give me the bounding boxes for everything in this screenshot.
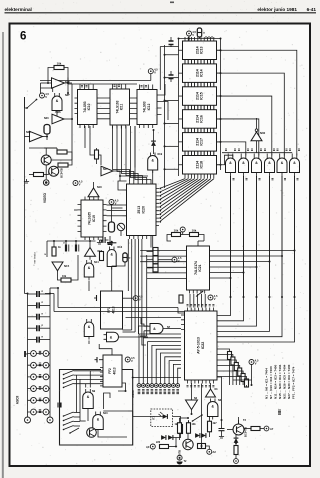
svg-text:10k: 10k bbox=[192, 228, 197, 232]
resistor R22 bbox=[172, 233, 181, 237]
pullup bottom lead 1 bbox=[232, 365, 234, 385]
video stage wiring bbox=[45, 165, 47, 179]
svg-text:10k: 10k bbox=[57, 61, 62, 65]
svg-text:V: V bbox=[131, 359, 133, 363]
IC13 bottom pin comb bbox=[185, 60, 214, 64]
resistor R9 bbox=[95, 150, 99, 159]
svg-text:IC15: IC15 bbox=[200, 92, 204, 100]
IC15 top pin comb bbox=[185, 83, 214, 87]
RAM data line D3 bbox=[217, 96, 272, 155]
left vertical rail bbox=[24, 97, 26, 294]
resistor R23 bbox=[190, 233, 199, 237]
svg-text:IC18: IC18 bbox=[200, 161, 204, 169]
count wire to N19 bbox=[134, 126, 136, 168]
IC14 top pin comb bbox=[185, 60, 214, 64]
junction dot bbox=[269, 296, 271, 298]
nand N7 bbox=[150, 324, 163, 334]
D7-R32 wires bbox=[235, 443, 237, 446]
RAM data line D1 bbox=[217, 142, 246, 156]
IC21 top pin bbox=[197, 241, 199, 246]
kbd capacitor row 3 bbox=[28, 327, 37, 329]
gate N24 bbox=[265, 158, 275, 172]
R32 wiring bbox=[235, 439, 237, 441]
cap C16 bbox=[219, 429, 225, 431]
polarized cap C7 bbox=[75, 245, 77, 252]
diodes D5 D6 bbox=[195, 433, 200, 438]
gate N21 bbox=[226, 158, 236, 172]
opto LED bbox=[163, 414, 168, 419]
svg-text:V: V bbox=[45, 95, 47, 99]
osc-to-counter wire A bbox=[67, 78, 69, 96]
svg-text:220: 220 bbox=[156, 441, 161, 444]
kbd cap to rail bbox=[57, 403, 59, 408]
UART top feed wires bbox=[189, 294, 191, 308]
kbd capacitor row 2 bbox=[28, 316, 37, 318]
IC21 bottom pins bbox=[190, 290, 205, 294]
svg-text:A7: A7 bbox=[270, 427, 274, 431]
UART bottom pin numbers bbox=[187, 386, 189, 387]
IC18 right pin bbox=[217, 164, 221, 166]
kbd line connector 9 bbox=[176, 384, 180, 388]
bottom mid wiring bbox=[191, 410, 193, 414]
mid wire crossing bbox=[120, 175, 148, 177]
N26 out wire bbox=[64, 118, 72, 120]
transistor T5 bbox=[233, 424, 244, 435]
IC14 CS stub bbox=[165, 77, 179, 79]
gate N24 output drop bbox=[269, 176, 271, 297]
left rail to keyboard wire bbox=[25, 293, 28, 295]
pullup resistor bottom 2 bbox=[234, 363, 238, 371]
inverter N18 bbox=[88, 188, 99, 197]
svg-text:N1 ... N6 = IC1 = 7404: N1 ... N6 = IC1 = 7404 bbox=[265, 368, 269, 399]
page top mark bbox=[170, 2, 174, 4]
svg-text:IC14: IC14 bbox=[200, 69, 204, 77]
IC14 right pin bbox=[217, 72, 221, 74]
IC17 top pin comb bbox=[185, 129, 214, 133]
FF2 left pins bbox=[100, 368, 103, 386]
N17 wiring bbox=[113, 171, 120, 181]
addr fan line A6 bbox=[160, 179, 195, 200]
socket A8 bbox=[234, 459, 239, 464]
gate N22 to UART wire bbox=[219, 176, 244, 321]
svg-text:V: V bbox=[255, 361, 257, 365]
kbd box inner wires bbox=[76, 375, 78, 412]
IC12 bottom pins bbox=[140, 125, 153, 129]
svg-text:N28: N28 bbox=[65, 81, 70, 84]
IC14 left pin bbox=[179, 72, 183, 74]
kbd pin pair 4 bbox=[28, 399, 51, 401]
gate N25 to UART wire bbox=[219, 176, 283, 337]
svg-text:V: V bbox=[139, 298, 141, 302]
gate N23 output drop bbox=[256, 176, 258, 297]
svg-text:VIDEO: VIDEO bbox=[43, 193, 47, 203]
IC19 left pins bbox=[78, 205, 82, 232]
UART kbd wire 0 bbox=[139, 334, 181, 384]
IC11 bottom pins bbox=[113, 125, 126, 129]
nand N9 bbox=[83, 392, 94, 408]
R28 bottom wire bbox=[179, 433, 181, 440]
addr fan line A7 bbox=[160, 179, 192, 196]
socket A7 bbox=[264, 426, 269, 431]
kbd gate wiring bbox=[87, 412, 89, 422]
svg-text:N26: N26 bbox=[55, 110, 61, 114]
latch IC21 74LS174 bbox=[187, 246, 210, 290]
RAM decoupling cap A bbox=[169, 41, 174, 45]
video output socket bbox=[43, 180, 49, 186]
uart strobe to keyboard wire bbox=[133, 377, 181, 379]
svg-text:10k: 10k bbox=[174, 228, 179, 232]
FF1 left cap bbox=[96, 295, 98, 301]
opto right wiring bbox=[169, 446, 177, 448]
video data turn 4b bbox=[140, 335, 147, 337]
gate input bus bbox=[222, 152, 292, 154]
gate N26 to UART wire bbox=[219, 176, 295, 342]
IC19 right pins bbox=[103, 205, 107, 232]
count-to-chargen wire 1 bbox=[117, 126, 134, 181]
resistor R27 bbox=[160, 445, 169, 449]
mono out bbox=[111, 266, 113, 291]
UART out wire 5 bbox=[217, 377, 247, 379]
IC13 top pin comb bbox=[185, 37, 214, 41]
gate N24 to UART wire bbox=[219, 176, 270, 331]
IC19-IC20 wire 3 bbox=[107, 215, 123, 217]
mono cap C13 bbox=[123, 253, 127, 262]
matrix wire 4 bbox=[210, 272, 244, 274]
kbd pin pair 1 bbox=[28, 364, 51, 366]
junction dot bbox=[281, 296, 283, 298]
UART out wire 2 bbox=[217, 360, 236, 362]
svg-text:IC11: IC11 bbox=[120, 103, 124, 110]
mono top cap bbox=[107, 242, 116, 244]
svg-text:u: u bbox=[129, 256, 131, 260]
svg-text:V: V bbox=[79, 182, 81, 186]
kbd line label 2 bbox=[146, 390, 149, 394]
IC13 left pin bbox=[179, 49, 183, 51]
count-to-chargen wire 4 bbox=[131, 126, 147, 181]
RAM data line D4 bbox=[217, 73, 285, 155]
IC12 right pins bbox=[157, 95, 162, 115]
video data wire ff1 bbox=[127, 239, 129, 291]
UART left top wires bbox=[126, 317, 182, 319]
kbd rail left bbox=[27, 294, 29, 421]
N19 output bbox=[152, 170, 154, 252]
IC18 left pin bbox=[179, 164, 183, 166]
junction dot bbox=[230, 296, 232, 298]
N7 wiring bbox=[166, 328, 181, 330]
svg-text:6: 6 bbox=[20, 31, 26, 43]
kbd line connector 2 bbox=[146, 384, 150, 388]
IC18 top pin comb bbox=[185, 152, 214, 156]
IC15 left pin bbox=[179, 95, 183, 97]
uart pullup supply bbox=[249, 360, 254, 365]
IC13 right pin bbox=[217, 49, 221, 51]
UART out wire 1 bbox=[217, 355, 233, 357]
kbd line connector 0 bbox=[137, 384, 141, 388]
kbd line label 4 bbox=[155, 390, 158, 394]
RAM IC16 2114 bbox=[183, 110, 217, 129]
N25 wiring bbox=[43, 136, 48, 138]
inverter N17 bbox=[101, 166, 113, 176]
inverter N30 bbox=[251, 132, 262, 141]
matrix wire 2 bbox=[210, 261, 270, 263]
IC18 bottom pin comb bbox=[185, 174, 214, 178]
elcap C15 bbox=[198, 444, 206, 449]
count-to-chargen wire 3 bbox=[126, 126, 142, 181]
svg-text:N13: N13 bbox=[118, 246, 123, 249]
svg-text:IC19: IC19 bbox=[92, 215, 96, 222]
matrix wire 1 bbox=[210, 255, 283, 257]
kbd transistor T3 bbox=[87, 428, 97, 438]
xtal X1 bbox=[44, 125, 50, 135]
counter IC12 74LS93 bbox=[137, 90, 157, 125]
matrix wire 5 bbox=[210, 277, 231, 279]
pullup bottom lead 2 bbox=[235, 371, 237, 386]
RAM decoupling cap B bbox=[169, 75, 174, 79]
svg-text:V: V bbox=[178, 259, 180, 263]
UART left resistor bbox=[179, 295, 183, 303]
kbd pin pair 5 bbox=[28, 411, 51, 413]
IC14 bottom pin comb bbox=[185, 82, 214, 86]
svg-text:10k: 10k bbox=[192, 423, 197, 426]
svg-text:FF1 , FF2 = IC7 = 7474: FF1 , FF2 = IC7 = 7474 bbox=[292, 366, 296, 399]
svg-text:N16: N16 bbox=[98, 250, 103, 253]
IC15 right pin bbox=[217, 95, 221, 97]
resistor R31 bbox=[251, 427, 260, 431]
kbd switch S13 bbox=[70, 428, 79, 433]
xtal X2 bbox=[109, 222, 115, 232]
inverter N28 bbox=[52, 78, 65, 88]
counter supply node bbox=[148, 69, 153, 74]
R28 top wire bbox=[179, 418, 181, 423]
svg-text:N27: N27 bbox=[65, 94, 70, 97]
UART kbd wire 1 bbox=[143, 338, 181, 384]
matrix junction 2 bbox=[269, 261, 271, 263]
svg-text:N11 ... N14 = IC3 = 7400: N11 ... N14 = IC3 = 7400 bbox=[274, 364, 278, 399]
resistor R26 bbox=[179, 425, 183, 434]
gate N25 bbox=[277, 158, 287, 173]
gate N23 bbox=[252, 158, 262, 172]
char-gen IC20 2513 bbox=[127, 184, 157, 236]
socket A3 bbox=[150, 444, 155, 449]
kbd pin pair 0 bbox=[28, 353, 51, 355]
IC20 left pins bbox=[123, 189, 127, 191]
svg-text:IC17: IC17 bbox=[200, 138, 204, 146]
FF2 top wiring bbox=[99, 344, 112, 351]
svg-text:* ver texto: * ver texto bbox=[33, 252, 37, 266]
video gnd bbox=[24, 179, 29, 183]
matrix junction 1 bbox=[281, 255, 283, 257]
chargen left wiring bbox=[111, 205, 113, 223]
line-rate wire bbox=[84, 126, 86, 148]
RAM left feed wire bbox=[160, 46, 178, 48]
resistor R28 bbox=[178, 423, 182, 434]
nand N3 bbox=[207, 402, 218, 417]
IC15 CS stub bbox=[165, 100, 179, 102]
FF2 left cap bbox=[96, 357, 98, 363]
svg-text:IC16: IC16 bbox=[200, 115, 204, 123]
FF2 supply bbox=[125, 357, 130, 362]
kbd line connector 7 bbox=[167, 384, 171, 388]
svg-text:6-41: 6-41 bbox=[307, 7, 317, 12]
matrix wire 0 bbox=[210, 250, 295, 252]
gate N25 output drop bbox=[281, 176, 283, 297]
switch cluster S9-S12 bbox=[64, 412, 74, 430]
kbd capacitor row 4 bbox=[28, 339, 37, 341]
svg-text:elekterminal: elekterminal bbox=[5, 7, 32, 12]
uart pullup bus bbox=[233, 379, 252, 381]
svg-text:IC22: IC22 bbox=[201, 342, 205, 350]
video data wire 1 bbox=[134, 239, 136, 332]
svg-text:ASCII: ASCII bbox=[16, 396, 20, 405]
gate N26 bbox=[290, 158, 300, 172]
kbd line connector 1 bbox=[141, 384, 145, 388]
junction dot bbox=[243, 296, 245, 298]
xtal wiring bbox=[46, 134, 48, 140]
gnd C16 bbox=[219, 434, 224, 438]
sync wire left bbox=[29, 147, 57, 149]
video data turn bbox=[123, 329, 132, 331]
UART kbd wire 3 bbox=[152, 345, 181, 383]
addr fan line A8 bbox=[160, 179, 189, 193]
counter pin labels bbox=[81, 86, 83, 87]
kbd pin pair 2 bbox=[28, 376, 51, 378]
UART out wire 4 bbox=[217, 371, 243, 373]
supply node chargen bbox=[109, 200, 114, 205]
osc cap wiring bbox=[47, 240, 96, 242]
UART kbd wire 2 bbox=[148, 342, 181, 384]
N18 wiring bbox=[93, 182, 95, 188]
RAM IC14 2114 bbox=[183, 64, 217, 83]
N14 wiring bbox=[88, 281, 90, 292]
gate N26 output drop bbox=[294, 176, 296, 297]
trimmer C12 bbox=[117, 223, 124, 230]
pullup resistor bottom 0 bbox=[228, 352, 232, 360]
svg-text:IC13: IC13 bbox=[200, 46, 204, 54]
junction dots bbox=[164, 54, 166, 56]
polarized cap C6 bbox=[65, 245, 67, 252]
T5 collector wire bbox=[238, 417, 240, 424]
svg-text:IC12: IC12 bbox=[147, 103, 151, 110]
addr fan line A4 bbox=[160, 179, 202, 208]
kbd line label 5 bbox=[159, 390, 162, 394]
flip-flop FF2 IC24b bbox=[103, 355, 122, 387]
counter feed stubs bbox=[80, 85, 93, 90]
speaker socket bbox=[177, 455, 182, 460]
cap C11 bbox=[103, 237, 105, 243]
resistor R29 bbox=[187, 423, 191, 434]
kbd line connector 3 bbox=[150, 384, 154, 388]
inverter N15 bbox=[52, 262, 63, 271]
kbd-to-UART wire 2 bbox=[45, 293, 54, 295]
kbd line label 7 bbox=[168, 390, 171, 394]
IC17 bottom pin comb bbox=[185, 151, 214, 155]
svg-text:V: V bbox=[154, 71, 156, 75]
addr fan line A9 bbox=[160, 179, 186, 189]
svg-text:N27 ... N30 = IC6 = 7400: N27 ... N30 = IC6 = 7400 bbox=[287, 364, 291, 399]
pullup bottom lead 3 bbox=[239, 376, 241, 385]
res R15 bbox=[100, 252, 104, 261]
RAM left rail bbox=[178, 39, 180, 177]
svg-text:IC20: IC20 bbox=[141, 206, 145, 213]
gate N21 output drop bbox=[230, 176, 232, 297]
IC10 bottom pins bbox=[80, 125, 93, 129]
N2 input wire bbox=[191, 383, 193, 400]
gate N22 bbox=[239, 158, 249, 172]
video data wire 0 bbox=[131, 239, 133, 330]
svg-text:N25: N25 bbox=[26, 131, 31, 134]
kbd box out to opto wire bbox=[132, 411, 134, 417]
switch cluster S5-S8 bbox=[64, 371, 74, 388]
video data wire 5b bbox=[150, 239, 152, 248]
kbd capacitor row 0 bbox=[28, 293, 37, 295]
nand N27 bbox=[52, 96, 62, 111]
svg-text:V: V bbox=[214, 297, 216, 301]
kbd-to-UART wire 1 bbox=[57, 288, 59, 308]
pullup R16 lead bbox=[147, 251, 154, 253]
pullup bottom lead 5 bbox=[246, 385, 248, 387]
N1 input wire bbox=[210, 383, 212, 389]
svg-text:N15 ... N20 = IC4 = 7404: N15 ... N20 = IC4 = 7404 bbox=[278, 364, 282, 399]
resistor R30 bbox=[208, 421, 212, 432]
UART right pin ticks bbox=[217, 316, 219, 343]
IC16 left pin bbox=[179, 118, 183, 120]
inverter N25 bbox=[30, 131, 43, 141]
svg-text:IC21: IC21 bbox=[198, 264, 202, 271]
FF2 bottom wire bbox=[118, 383, 126, 391]
svg-text:4k7: 4k7 bbox=[213, 422, 218, 425]
RAM IC13 2114 bbox=[183, 41, 217, 60]
pullup resistor bottom 4 bbox=[241, 374, 245, 382]
T5 collector wiring bbox=[238, 420, 240, 424]
pullup resistor bottom 5 bbox=[245, 379, 249, 387]
inverter N1 bbox=[206, 389, 216, 397]
R29 top wire bbox=[188, 421, 190, 423]
IC19 bottom pins bbox=[85, 237, 98, 240]
kbd line label 6 bbox=[164, 390, 167, 394]
IC21 left pin wires bbox=[140, 250, 186, 252]
count-to-chargen wire 5 bbox=[135, 126, 151, 181]
video supply node bbox=[73, 181, 78, 186]
UART top pin numbers bbox=[187, 305, 189, 306]
IC20 right pins bbox=[156, 189, 159, 226]
svg-text:BC557B: BC557B bbox=[178, 450, 182, 460]
UART upper left pins bbox=[181, 315, 185, 329]
video data wire end bbox=[142, 336, 146, 345]
svg-text:N15: N15 bbox=[64, 264, 70, 268]
svg-text:A3: A3 bbox=[146, 445, 150, 449]
svg-text:N26: N26 bbox=[44, 117, 49, 120]
video data wire 2 bbox=[138, 239, 140, 334]
nand N10 bbox=[93, 415, 104, 430]
kbd line connector 8 bbox=[172, 384, 176, 388]
R22-R23 supply node bbox=[180, 227, 185, 232]
IC17 left pin bbox=[179, 141, 183, 143]
paper speckle bbox=[200, 35, 203, 38]
IC17 CS stub bbox=[165, 145, 179, 147]
transistor T4 bbox=[183, 439, 193, 449]
svg-text:V: V bbox=[192, 33, 194, 37]
UART supply node bbox=[208, 295, 213, 300]
matrix junction 4 bbox=[243, 272, 245, 274]
char-rate wire bbox=[90, 126, 101, 165]
nand N19 bbox=[148, 156, 158, 170]
power node osc bbox=[40, 93, 45, 98]
shift register IC19 74LS165 bbox=[81, 200, 103, 237]
addr fan line A5 bbox=[160, 179, 199, 204]
gate N21 to UART wire bbox=[219, 176, 231, 316]
opto wiring bbox=[133, 416, 163, 418]
svg-text:N19: N19 bbox=[158, 153, 163, 156]
